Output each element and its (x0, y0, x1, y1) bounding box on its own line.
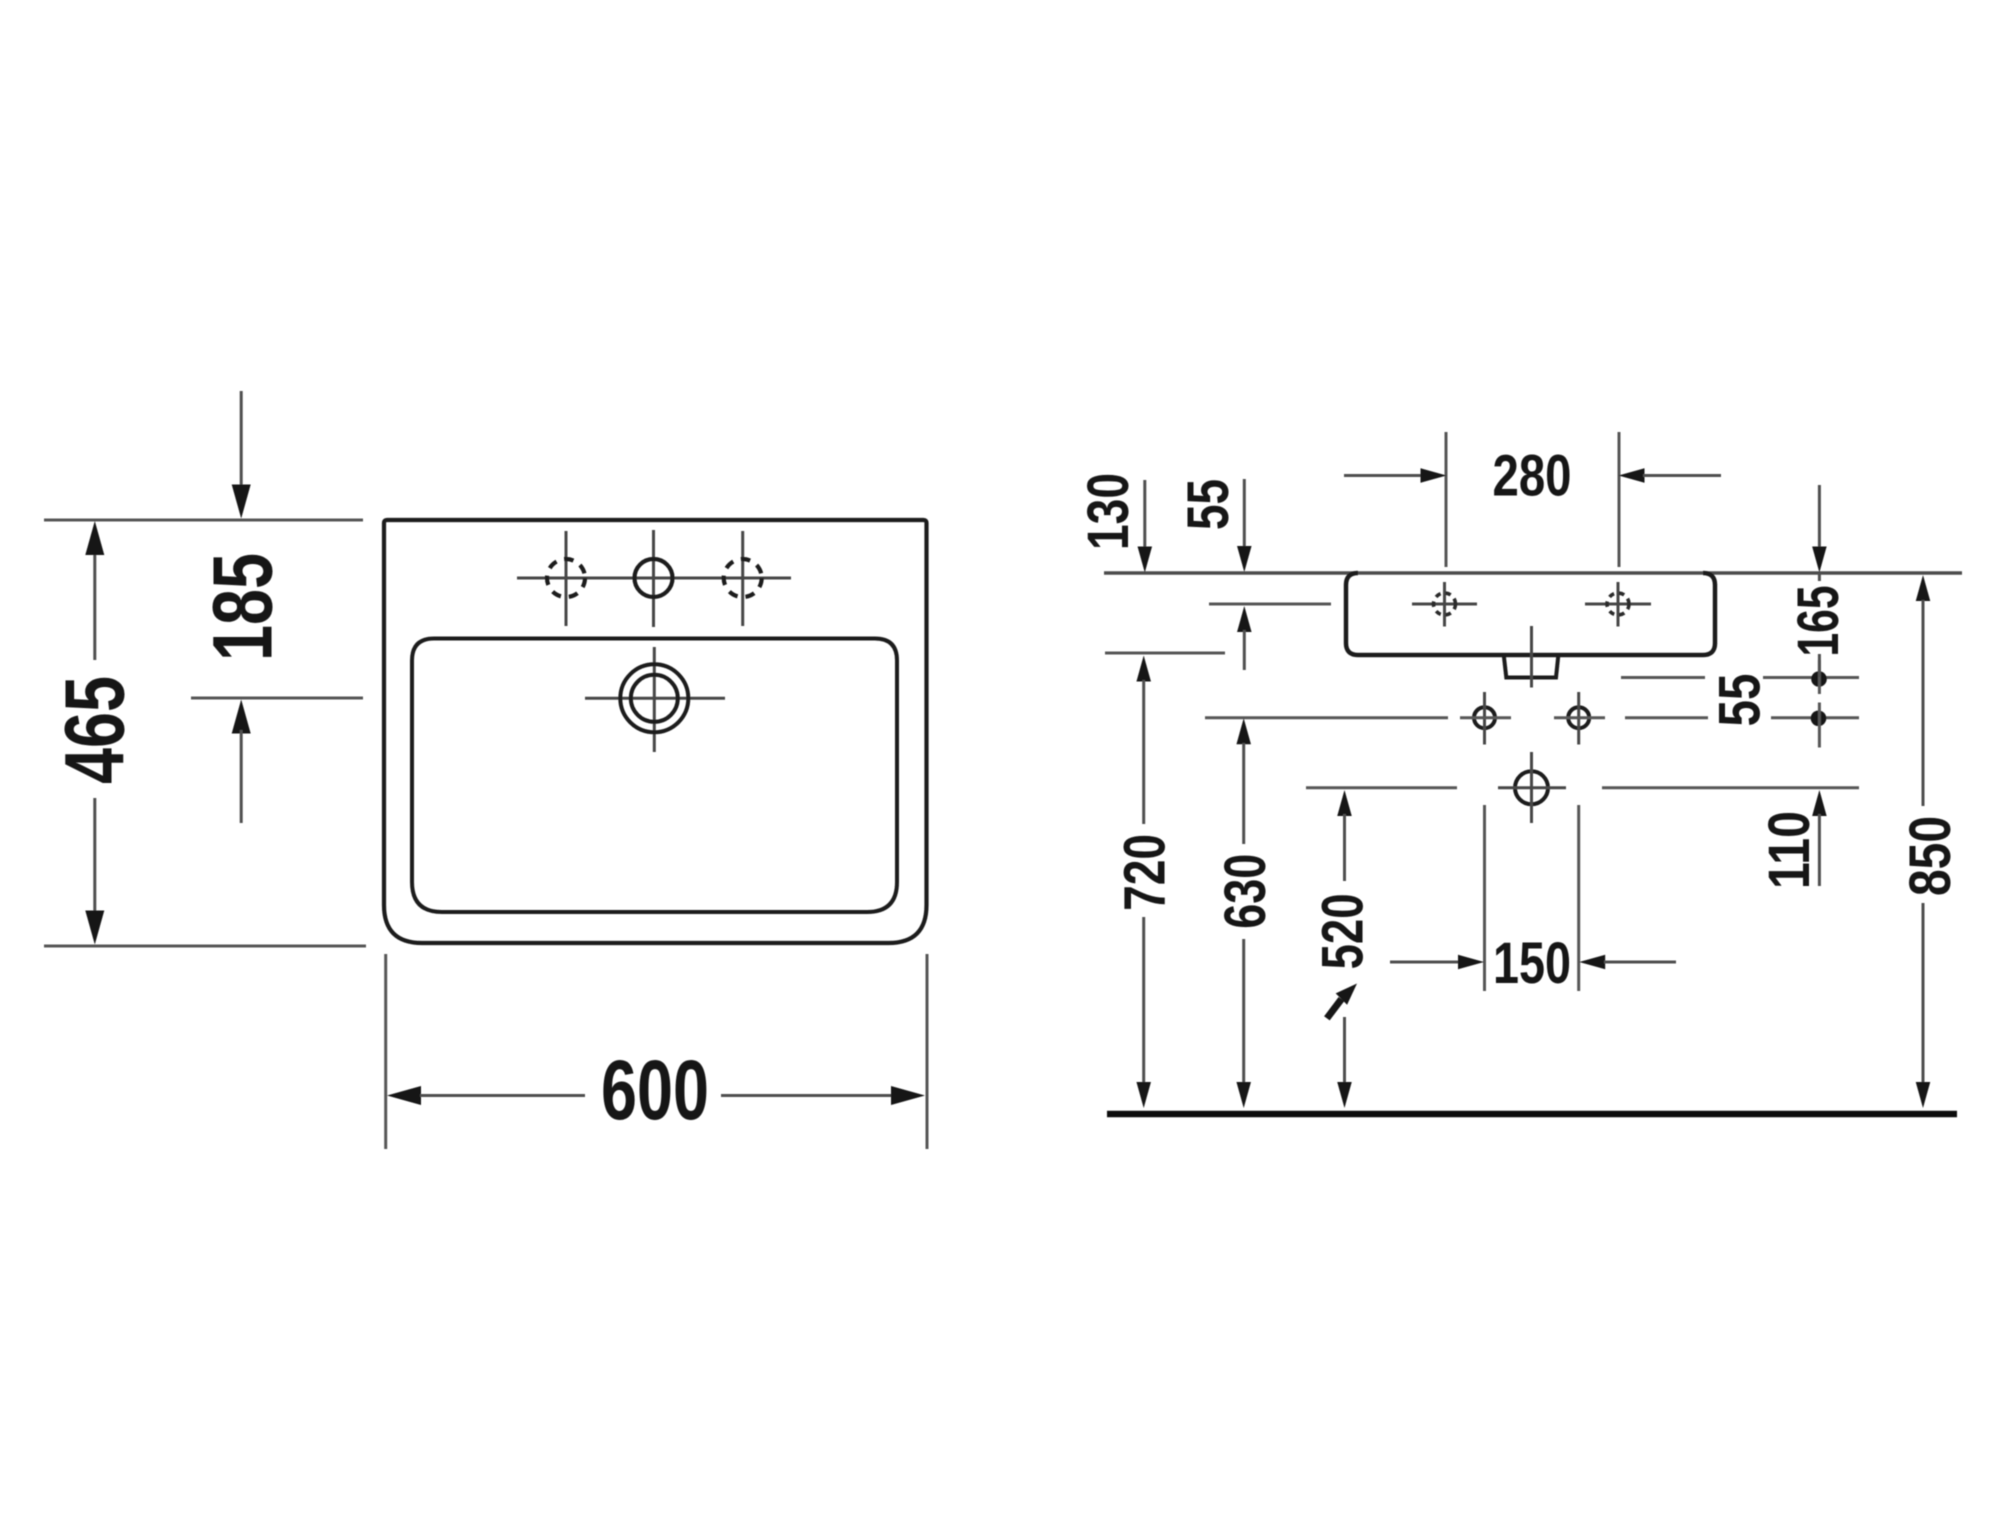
drain stub trapezoid (1504, 656, 1559, 678)
faucet hole middle (drilled hole) (635, 559, 673, 597)
svg-text:630: 630 (1213, 854, 1278, 929)
drain direction arrow symbol (1327, 984, 1357, 1019)
extension line waste level segment b (through outlet) (1498, 786, 1566, 789)
dimension 55 upper arrowhead (1237, 546, 1252, 572)
svg-text:850: 850 (1898, 816, 1963, 896)
extension line top (rear edge) (44, 519, 363, 522)
faucet hole left dashed circle (1434, 593, 1456, 615)
dimension 465 line lower segment (93, 798, 96, 914)
reference dot upper (1811, 671, 1827, 687)
fixing bolt hole right circle (1568, 707, 1589, 728)
svg-text:55: 55 (1176, 479, 1241, 530)
dimension 165 arrow tail (1818, 485, 1821, 548)
fixing bolt hole left vertical centreline (1483, 692, 1486, 745)
dimension 520 arrowhead top (1337, 790, 1352, 816)
dimension 150 right tail (1604, 961, 1676, 964)
svg-text:55: 55 (1707, 674, 1772, 727)
drain inner circle (631, 675, 678, 722)
dimension 55 upper arrow tail (1243, 479, 1246, 547)
drain outer circle (620, 664, 688, 732)
dimension 465 line upper segment (93, 551, 96, 660)
dimension 55 lower arrowhead (1237, 606, 1252, 632)
dimension 850 arrowhead top (1916, 575, 1931, 601)
dimension 520 arrowhead bottom (1337, 1082, 1352, 1108)
extension line rim level (continuous, forms basin top edge) (1104, 571, 1962, 575)
dimension 630 line lower (1242, 939, 1245, 1083)
basin inner bowl outline (412, 639, 897, 913)
svg-text:465: 465 (48, 676, 142, 784)
extension line waste level segment c (1602, 786, 1859, 789)
faucet hole left crosshair horizontal (1412, 603, 1477, 606)
basin outer outline (384, 520, 927, 943)
faucet hole right crosshair vertical (1617, 582, 1620, 627)
svg-text:165: 165 (1786, 586, 1851, 657)
faucet hole left centerline vertical (565, 531, 568, 626)
extension line 600 left (384, 954, 387, 1149)
reference dot upper vertical tick (1818, 660, 1821, 694)
svg-text:600: 600 (601, 1043, 709, 1137)
faucet hole right dashed circle (1607, 593, 1629, 615)
dimension 600 arrow right (891, 1086, 925, 1105)
svg-text:520: 520 (1310, 893, 1375, 969)
dimension 630 arrowhead bottom (1236, 1082, 1251, 1108)
overflow/drain crosshair vertical (653, 647, 656, 752)
extension line 150 right vertical (1577, 805, 1580, 991)
dimension 600 line right segment (721, 1094, 891, 1097)
dimension 110 arrowhead (points up to waste level) (1812, 790, 1827, 816)
drain centreline vertical through stub (1530, 626, 1533, 688)
dimension 520 line lower (1343, 1017, 1346, 1083)
waste outlet vertical centreline (1530, 752, 1533, 823)
dimension 165 arrowhead (points down to rim) (1812, 547, 1827, 573)
extension line bottom (front edge) (44, 945, 366, 948)
dimension 185 upper arrow tail (240, 391, 243, 488)
dimension 465 arrow down (85, 911, 104, 945)
dimension 280 right arrowhead (points left) (1619, 468, 1645, 483)
fixing bolt hole left circle (1474, 707, 1495, 728)
dimension 520 line upper (1343, 814, 1346, 881)
extension line drain stub bottom level segment a (1621, 676, 1705, 679)
dimension 280 left arrowhead (points right) (1421, 468, 1447, 483)
waste outlet circle (1515, 771, 1548, 804)
dimension 850 arrowhead bottom (1916, 1082, 1931, 1108)
extension line drain stub bottom level segment b (1763, 676, 1859, 679)
extension line basin bottom level (1105, 652, 1225, 655)
floor line (1107, 1111, 1957, 1118)
dimension 465 arrow up (85, 521, 104, 555)
dimension 150 left tail (1390, 961, 1459, 964)
faucet hole left crosshair vertical (1443, 582, 1446, 627)
reference dot lower (1811, 711, 1827, 727)
dimension 150 left arrowhead (points right) (1458, 955, 1484, 970)
dimension 130 arrow tail (1143, 480, 1146, 548)
faucet hole middle centerline vertical (652, 530, 655, 627)
dimension 600 line left segment (420, 1094, 585, 1097)
dimension 185 lower arrow tail (240, 730, 243, 823)
extension line bolt level segment c (1554, 716, 1605, 719)
dimension 150 right arrowhead (points left) (1579, 955, 1605, 970)
overflow/drain crosshair horizontal (585, 697, 725, 700)
dimension 185 upper arrowhead (points down to rear edge) (232, 485, 251, 519)
extension line at drain centre level (191, 697, 363, 700)
faucet hole left (dashed optional hole) (547, 559, 585, 597)
svg-text:150: 150 (1493, 931, 1571, 996)
dimension 165 line stub above dot (1818, 654, 1821, 677)
dimension 850 line lower (1922, 903, 1925, 1083)
dimension 720 line upper (1142, 680, 1145, 824)
dimension 165 line stub below rim (1818, 573, 1821, 581)
extension line bolt level segment a (1205, 716, 1448, 719)
dimension 720 line lower (1142, 917, 1145, 1083)
svg-text:720: 720 (1112, 834, 1177, 911)
svg-text:110: 110 (1757, 811, 1822, 889)
dimension 850 line upper (1922, 600, 1925, 806)
extension line 280 left vertical (1445, 432, 1448, 567)
dimension 630 line upper (1242, 743, 1245, 844)
extension line bolt level segment b (1460, 716, 1511, 719)
svg-text:130: 130 (1076, 473, 1141, 550)
faucet hole right crosshair horizontal (1585, 603, 1651, 606)
extension line bolt level segment e (1771, 716, 1859, 719)
faucet holes centerline horizontal (517, 577, 791, 580)
svg-text:185: 185 (196, 553, 290, 661)
extension line bolt level segment d (1625, 716, 1708, 719)
dimension 600 arrow left (387, 1086, 421, 1105)
dimension 280 left tail (1344, 474, 1422, 477)
dimension 130 arrowhead (1138, 547, 1153, 573)
dimension 110 arrow tail (1818, 814, 1821, 886)
extension line 600 right (926, 954, 929, 1149)
faucet hole right (dashed optional hole) (724, 559, 762, 597)
basin body front profile (1346, 573, 1715, 655)
faucet hole right centerline vertical (741, 531, 744, 626)
dimension 280 right tail (1643, 474, 1721, 477)
dimension 185 lower arrowhead (points up to drain level) (232, 700, 251, 734)
extension line waste level segment a (1306, 786, 1457, 789)
extension line 280 right vertical (1618, 432, 1621, 567)
reference dot lower vertical tick (1818, 703, 1821, 748)
dimension 630 arrowhead top (1236, 718, 1251, 744)
svg-text:280: 280 (1493, 444, 1572, 509)
dimension 720 arrowhead bottom (1136, 1082, 1151, 1108)
dimension 55 lower arrow tail (1243, 630, 1246, 670)
fixing bolt hole right vertical centreline (1577, 692, 1580, 745)
dimension 720 arrowhead top (1136, 656, 1151, 682)
extension line faucet hole level (1209, 603, 1331, 606)
extension line 150 left vertical (1483, 805, 1486, 991)
